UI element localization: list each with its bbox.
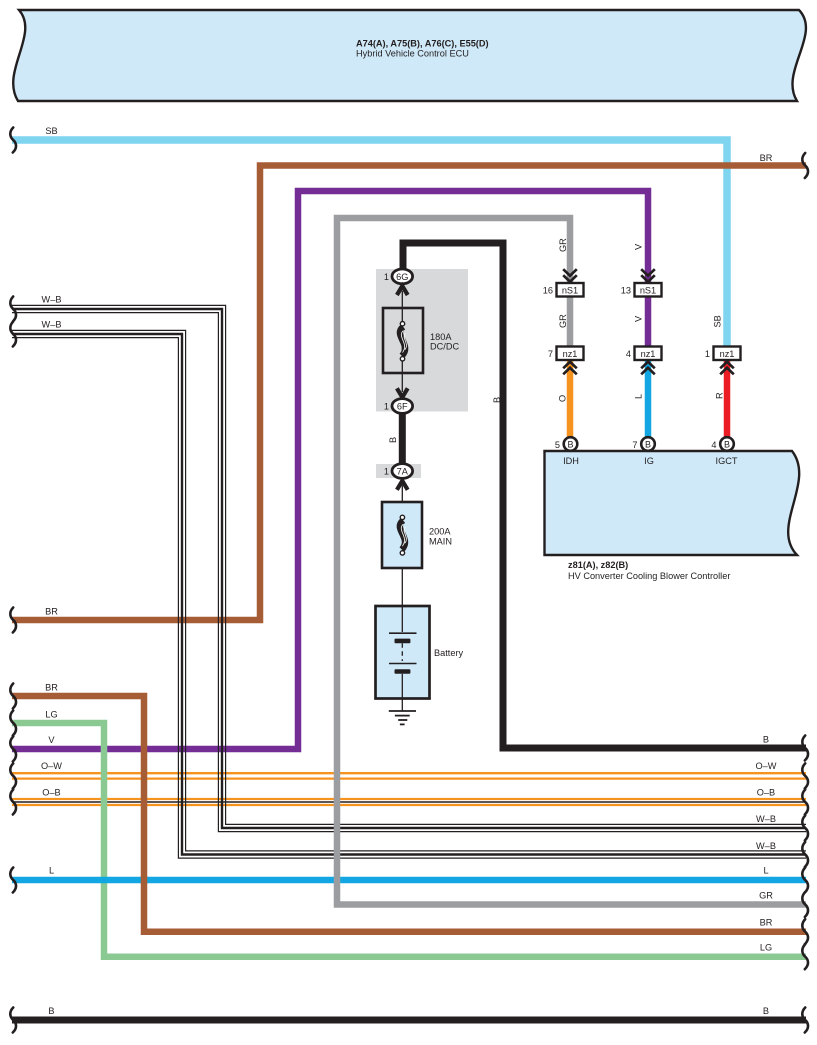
svg-text:A74(A), A75(B), A76(C), E55(D): A74(A), A75(B), A76(C), E55(D) bbox=[356, 39, 489, 49]
svg-text:4: 4 bbox=[626, 349, 631, 359]
fusible link 180A DC/DC bbox=[383, 308, 459, 373]
svg-text:O–W: O–W bbox=[756, 761, 777, 771]
svg-text:W–B: W–B bbox=[756, 814, 776, 824]
svg-text:BR: BR bbox=[45, 683, 58, 693]
squiggle left O-B bbox=[10, 790, 16, 815]
connector 6G bbox=[384, 269, 413, 284]
svg-text:180A: 180A bbox=[430, 332, 452, 342]
svg-text:W–B: W–B bbox=[42, 320, 62, 330]
svg-text:5: 5 bbox=[555, 440, 560, 450]
svg-text:R: R bbox=[715, 392, 725, 399]
svg-text:Hybrid Vehicle Control ECU: Hybrid Vehicle Control ECU bbox=[356, 49, 469, 59]
wire GR segment nS1-nz1 col1 bbox=[567, 294, 574, 348]
svg-text:B: B bbox=[724, 440, 730, 450]
wire V segment nS1-nz1 col2 bbox=[645, 294, 652, 348]
svg-text:nS1: nS1 bbox=[562, 286, 578, 296]
squiggle left O-W bbox=[10, 763, 16, 788]
svg-text:W–B: W–B bbox=[756, 841, 776, 851]
svg-text:GR: GR bbox=[558, 238, 568, 252]
svg-text:B: B bbox=[763, 1006, 769, 1016]
squiggle left W-B2 bbox=[10, 322, 16, 347]
HV Converter Cooling Blower Controller box bbox=[545, 451, 800, 581]
svg-text:O–W: O–W bbox=[41, 761, 62, 771]
connector 7A bbox=[384, 464, 413, 479]
squiggle left W-B1 bbox=[10, 297, 16, 322]
svg-text:nS1: nS1 bbox=[640, 286, 656, 296]
squiggle right BR2 bbox=[802, 919, 808, 944]
gray strip behind 7A bbox=[376, 464, 421, 478]
connector nz1 col1 pin7 bbox=[548, 347, 584, 361]
thin wire 6G to 6F bbox=[401, 291, 403, 392]
wire W-B #2 bbox=[12, 330, 806, 858]
wire O-W horizontal bbox=[12, 773, 806, 778]
squiggle left BR1 bbox=[10, 608, 16, 633]
wire B bottom bbox=[12, 1017, 806, 1024]
squiggle right B bbox=[802, 1008, 808, 1033]
svg-text:O–B: O–B bbox=[757, 788, 775, 798]
svg-text:nz1: nz1 bbox=[563, 349, 578, 359]
squiggle left SB bbox=[10, 128, 16, 153]
arrow into 6F bbox=[397, 388, 408, 397]
svg-text:O: O bbox=[558, 395, 568, 402]
pin circle B 5 IDH bbox=[555, 437, 579, 466]
svg-text:nz1: nz1 bbox=[641, 349, 656, 359]
connector 6F bbox=[384, 399, 413, 414]
squiggle right W-B2 bbox=[802, 842, 808, 867]
arrow into 6G bbox=[397, 286, 408, 295]
svg-text:B: B bbox=[388, 437, 398, 443]
svg-text:V: V bbox=[634, 315, 644, 322]
svg-text:B: B bbox=[763, 735, 769, 745]
wire L horizontal bbox=[12, 877, 806, 884]
svg-text:6G: 6G bbox=[396, 272, 408, 282]
svg-text:IDH: IDH bbox=[563, 456, 579, 466]
svg-text:SB: SB bbox=[45, 126, 57, 136]
svg-text:B: B bbox=[567, 440, 573, 450]
wire SB (ECU to nz1 col3) bbox=[12, 140, 727, 346]
wire B main (6G up over to right edge) bbox=[403, 243, 806, 748]
svg-text:B: B bbox=[48, 1006, 54, 1016]
svg-text:1: 1 bbox=[384, 402, 389, 412]
svg-text:nz1: nz1 bbox=[720, 349, 735, 359]
svg-text:4: 4 bbox=[711, 440, 716, 450]
svg-text:V: V bbox=[634, 243, 644, 250]
squiggle right B bbox=[802, 736, 808, 761]
squiggle right O-W bbox=[802, 763, 808, 788]
svg-text:6F: 6F bbox=[397, 402, 408, 412]
pin circle B 7 IG bbox=[632, 437, 654, 466]
svg-text:B: B bbox=[645, 440, 651, 450]
thin wire 7A to battery bbox=[401, 485, 403, 606]
connector nz1 col3 pin1 bbox=[705, 347, 741, 361]
svg-text:L: L bbox=[634, 394, 644, 399]
svg-text:O–B: O–B bbox=[42, 788, 60, 798]
squiggle left BR2 bbox=[10, 684, 16, 709]
wire BR upper (right edge to left edge via x=260) bbox=[12, 166, 806, 621]
wire GR (nS1 col1 down via x=337 to right edge) bbox=[337, 218, 806, 905]
arrow into 7A bbox=[397, 481, 408, 490]
squiggle right W-B1 bbox=[802, 816, 808, 841]
wire O (nz1 col1 to controller) bbox=[567, 361, 574, 441]
svg-text:Battery: Battery bbox=[434, 648, 464, 658]
svg-text:L: L bbox=[763, 866, 768, 876]
svg-text:BR: BR bbox=[760, 918, 773, 928]
svg-text:B: B bbox=[492, 397, 502, 403]
svg-text:IGCT: IGCT bbox=[716, 456, 738, 466]
wire B segment 6F-7A bbox=[399, 412, 406, 466]
ECU box A74/A75/A76/E55 Hybrid Vehicle Control ECU bbox=[13, 10, 806, 101]
svg-text:LG: LG bbox=[760, 943, 772, 953]
wire O-B horizontal bbox=[12, 799, 806, 805]
wire L (nz1 col2 to controller) bbox=[645, 361, 652, 441]
chevron arrow out of nz1 col2 bbox=[641, 362, 655, 375]
svg-text:200A: 200A bbox=[429, 527, 451, 537]
ground bbox=[389, 711, 416, 724]
svg-text:1: 1 bbox=[384, 272, 389, 282]
svg-text:GR: GR bbox=[759, 891, 773, 901]
svg-text:L: L bbox=[49, 866, 54, 876]
squiggle left B bbox=[10, 1008, 16, 1033]
wire V violet (left edge to nS1 col2) bbox=[12, 191, 648, 749]
gray background box DC/DC bbox=[376, 269, 468, 412]
svg-text:HV Converter Cooling Blower Co: HV Converter Cooling Blower Controller bbox=[568, 571, 730, 581]
svg-text:1: 1 bbox=[384, 467, 389, 477]
svg-text:LG: LG bbox=[45, 710, 57, 720]
svg-text:z81(A), z82(B): z81(A), z82(B) bbox=[568, 560, 628, 570]
svg-text:7A: 7A bbox=[397, 467, 409, 477]
squiggle right O-B bbox=[802, 790, 808, 815]
squiggle right GR bbox=[802, 892, 808, 917]
svg-text:W–B: W–B bbox=[42, 295, 62, 305]
chevron arrow out of nz1 col3 bbox=[720, 362, 734, 375]
squiggle left L bbox=[10, 868, 16, 893]
svg-text:BR: BR bbox=[760, 153, 773, 163]
svg-text:BR: BR bbox=[45, 607, 58, 617]
svg-text:13: 13 bbox=[621, 286, 631, 296]
pin circle B 4 IGCT bbox=[711, 437, 737, 466]
squiggle right LG bbox=[802, 944, 808, 969]
chevron arrow into nS1 col1 bbox=[563, 269, 577, 282]
svg-text:1: 1 bbox=[705, 349, 710, 359]
svg-text:DC/DC: DC/DC bbox=[430, 342, 459, 352]
svg-text:MAIN: MAIN bbox=[429, 537, 452, 547]
svg-text:SB: SB bbox=[713, 315, 723, 327]
connector nz1 col2 pin4 bbox=[626, 347, 662, 361]
svg-text:7: 7 bbox=[548, 349, 553, 359]
wire W-B #1 bbox=[12, 305, 806, 831]
chevron arrow into nS1 col2 bbox=[641, 269, 655, 282]
wire R (nz1 col3 to controller) bbox=[724, 361, 731, 441]
svg-text:16: 16 bbox=[543, 286, 553, 296]
fusible link 200A MAIN bbox=[382, 502, 452, 568]
squiggle left V bbox=[10, 737, 16, 762]
battery bbox=[376, 606, 464, 711]
connector nS1 col2 pin13 bbox=[621, 283, 662, 297]
wire LG (left edge to right edge via x=105) bbox=[12, 723, 806, 957]
svg-text:GR: GR bbox=[558, 314, 568, 328]
chevron arrow out of nz1 col1 bbox=[563, 362, 577, 375]
squiggle left LG bbox=[10, 711, 16, 736]
squiggle right L bbox=[802, 868, 808, 893]
svg-text:IG: IG bbox=[644, 456, 654, 466]
wire BR lower (left edge to right edge via x=144) bbox=[12, 696, 806, 932]
svg-text:7: 7 bbox=[632, 440, 637, 450]
connector nS1 col1 pin16 bbox=[543, 283, 584, 297]
svg-text:V: V bbox=[48, 735, 55, 745]
squiggle right BR1 bbox=[802, 153, 808, 178]
